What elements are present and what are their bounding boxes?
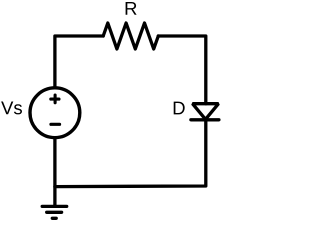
label R bbox=[126, 2, 137, 15]
diode D triangle (anode) bbox=[193, 104, 219, 120]
label Vs bbox=[1, 101, 22, 114]
voltage source Vs circle bbox=[30, 88, 80, 138]
Vs plus sign bbox=[51, 95, 59, 103]
Vs minus sign bbox=[51, 123, 60, 126]
wire diode cathode down and bottom wire to ground junction bbox=[55, 120, 206, 187]
ground bar 1 bbox=[42, 205, 66, 208]
wire Vs bottom through junction to ground bbox=[53, 138, 56, 206]
wire top-left corner (Vs top lead to resistor) bbox=[55, 36, 103, 88]
label D bbox=[174, 102, 185, 115]
ground bar 2 bbox=[47, 211, 62, 214]
ground bar 3 bbox=[52, 217, 56, 220]
wire top-right corner (resistor to diode anode) bbox=[158, 36, 206, 104]
resistor R zigzag bbox=[103, 23, 158, 49]
diode D cathode bar bbox=[191, 118, 219, 121]
